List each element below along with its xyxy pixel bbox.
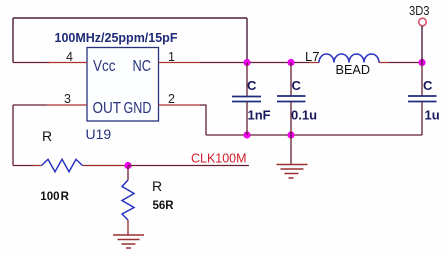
ground symbol under 0.1u: [277, 165, 308, 179]
capacitor C1 plates: [232, 96, 261, 98]
svg-text:CLK100M: CLK100M: [191, 151, 247, 166]
wire: pin 2 down: [200, 105, 206, 135]
oscillator U19 body: [87, 48, 159, 122]
wire: CLK100M net: [128, 165, 249, 167]
capacitor C1 stem bottom: [246, 102, 248, 136]
wire: junction down to 56R: [127, 166, 129, 181]
svg-text:L7: L7: [305, 49, 319, 64]
capacitor C3 stem bottom: [421, 102, 423, 136]
svg-text:C: C: [247, 78, 257, 93]
wire: 100R to junction: [83, 165, 129, 167]
wire: pin 3 to left: [13, 104, 47, 106]
svg-text:C: C: [423, 78, 433, 93]
svg-text:OUT: OUT: [93, 100, 122, 117]
pin 1 stub (NC): [159, 62, 201, 64]
wire: node line to L7: [247, 62, 309, 64]
svg-text:2: 2: [168, 92, 175, 106]
svg-text:1u: 1u: [425, 108, 440, 123]
svg-text:3: 3: [64, 92, 71, 106]
wire: right vertical of top loop down to node: [246, 18, 248, 63]
junction node at 1nF top: [243, 59, 250, 66]
inductor L7 left pin: [309, 62, 319, 64]
svg-text:0.1u: 0.1u: [291, 108, 317, 123]
svg-text:R: R: [42, 128, 52, 144]
capacitor C1 stem top (1nF): [246, 63, 248, 97]
svg-text:R: R: [152, 178, 162, 194]
pin 2 stub (GND): [159, 104, 201, 106]
wire: L7 to 3D3 node: [389, 62, 422, 64]
junction node at 0.1u top: [287, 59, 294, 66]
ground symbol under 56R: [113, 235, 144, 248]
svg-text:C: C: [292, 78, 302, 93]
wire: horizontal into 100R resistor: [13, 165, 33, 167]
power terminal circle 3D3: [419, 18, 427, 26]
wire: pin 1 to node: [200, 62, 247, 64]
svg-text:1nF: 1nF: [248, 108, 271, 123]
junction node at 1nF bottom: [243, 131, 250, 138]
resistor R1 zigzag (100R): [42, 159, 83, 171]
wire: bottom ground rail: [206, 134, 422, 136]
svg-text:56R: 56R: [153, 200, 175, 212]
svg-text:1: 1: [168, 50, 175, 64]
svg-text:NC: NC: [133, 58, 152, 75]
capacitor C2 stem bottom: [290, 102, 292, 136]
junction node at 56R tap: [124, 162, 131, 169]
wire: top loop horizontal: [13, 17, 247, 19]
wire: 3D3 terminal down to node: [421, 26, 423, 63]
junction node at 0.1u bottom: [287, 131, 294, 138]
inductor L7 coil: [319, 54, 379, 63]
wire: left vertical down to resistor line: [12, 105, 14, 166]
inductor L7 right pin: [379, 62, 389, 64]
wire: 56R to ground: [127, 220, 129, 235]
svg-text:BEAD: BEAD: [336, 63, 371, 77]
junction node at 1u top: [418, 59, 425, 66]
capacitor C2 plates: [277, 95, 306, 97]
svg-text:100MHz/25ppm/15pF: 100MHz/25ppm/15pF: [55, 31, 178, 45]
pin 3 stub (OUT): [47, 104, 87, 106]
wire: mid ground stem: [290, 135, 292, 164]
wire: pin-4 net horizontal: [13, 62, 50, 64]
resistor R1 left pin: [33, 165, 42, 167]
capacitor C3 stem top (1u): [421, 63, 423, 97]
svg-text:R: R: [61, 191, 70, 203]
svg-text:3D3: 3D3: [409, 3, 430, 18]
resistor R2 zigzag (56R): [122, 180, 134, 220]
pin 4 stub (Vcc): [47, 62, 87, 64]
svg-text:Vcc: Vcc: [93, 58, 116, 75]
wire: left vertical from top loop down to pin 4: [12, 18, 14, 63]
capacitor C2 stem top (0.1u): [290, 63, 292, 97]
capacitor C3 plates: [408, 95, 437, 97]
svg-text:100: 100: [40, 191, 59, 203]
svg-text:GND: GND: [124, 100, 152, 117]
svg-text:4: 4: [66, 50, 73, 64]
svg-text:U19: U19: [86, 126, 112, 142]
